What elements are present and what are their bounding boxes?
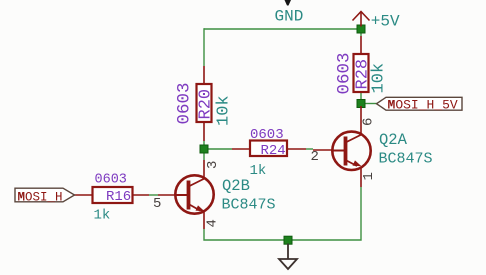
svg-text:Q2B: Q2B	[222, 177, 250, 195]
svg-text:R20: R20	[197, 89, 216, 120]
svg-text:10k: 10k	[215, 95, 234, 126]
svg-text:BC847S: BC847S	[379, 151, 433, 168]
svg-text:1k: 1k	[250, 163, 267, 179]
svg-text:+5V: +5V	[371, 13, 400, 31]
svg-text:0603: 0603	[335, 52, 355, 94]
svg-text:0603: 0603	[175, 82, 195, 124]
svg-text:1k: 1k	[94, 208, 111, 224]
svg-text:2: 2	[311, 149, 319, 165]
svg-text:MOSI_H: MOSI_H	[18, 190, 63, 204]
svg-text:6: 6	[361, 118, 377, 126]
svg-text:R28: R28	[354, 59, 373, 90]
svg-text:1: 1	[361, 172, 377, 180]
svg-text:5: 5	[153, 196, 161, 212]
svg-text:3: 3	[205, 161, 221, 169]
svg-text:Q2A: Q2A	[379, 131, 408, 149]
svg-text:GND: GND	[275, 8, 304, 26]
svg-text:4: 4	[205, 219, 221, 227]
svg-text:0603: 0603	[250, 127, 284, 143]
svg-text:R16: R16	[106, 189, 131, 205]
svg-text:MOSI_H_5V: MOSI_H_5V	[388, 98, 458, 113]
svg-text:R24: R24	[261, 143, 286, 159]
svg-text:BC847S: BC847S	[222, 197, 276, 214]
svg-text:0603: 0603	[95, 173, 127, 188]
